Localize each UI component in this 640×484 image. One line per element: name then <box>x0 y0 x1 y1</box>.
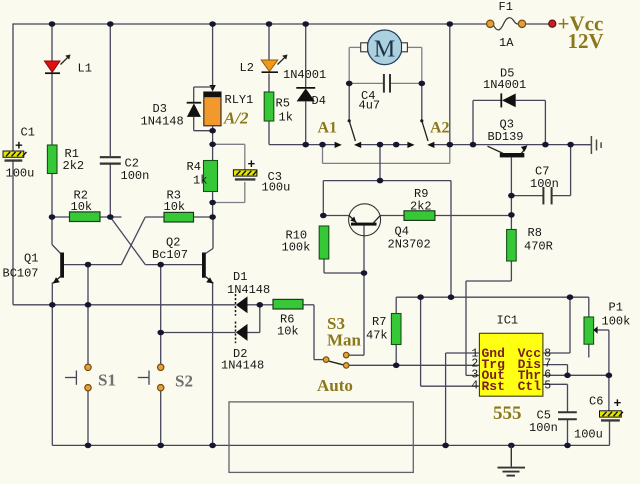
resistor R2 <box>70 212 101 222</box>
wire R10 bottom link <box>324 259 364 273</box>
wire 555 pin4 riser <box>421 297 480 386</box>
wire Q2 collector riser <box>206 217 214 254</box>
label C6 <box>574 395 622 442</box>
label C3 <box>248 157 291 195</box>
wire Q4 collector to R9 <box>381 215 405 217</box>
resistor R9 <box>404 211 435 221</box>
wire R8 bottom to 555 out <box>466 261 511 375</box>
label F1 <box>499 0 515 50</box>
svg-text:10k: 10k <box>164 200 186 214</box>
label D5 <box>483 67 526 93</box>
svg-text:2k2: 2k2 <box>410 200 432 214</box>
label D1 <box>227 270 270 297</box>
IC 555 pin names <box>482 346 542 394</box>
label Auto <box>317 376 353 395</box>
label R3 <box>164 189 186 215</box>
wire R5 bottom corner <box>269 121 335 145</box>
diode D5 <box>501 93 515 107</box>
wire crossover to R3 <box>145 216 164 218</box>
resistor R6 <box>273 299 303 309</box>
wire C4 left lead <box>349 82 384 84</box>
svg-text:L1: L1 <box>78 62 92 76</box>
wire D4 column top <box>305 24 307 88</box>
label A1 <box>318 120 338 137</box>
wire R1 bottom to node <box>51 174 53 218</box>
wire relay coil feed <box>212 24 214 86</box>
resistor R4 <box>204 161 218 192</box>
label C7 <box>530 165 559 192</box>
svg-text:+: + <box>614 396 622 411</box>
junction dots relay column <box>209 128 216 220</box>
svg-text:BC107: BC107 <box>3 267 39 281</box>
contact A2 <box>407 119 434 148</box>
resistor R8 <box>507 230 517 262</box>
wire Q2 base line <box>145 264 202 266</box>
wire A1 lever riser <box>348 83 350 120</box>
transistor Q1 <box>53 253 64 284</box>
svg-text:1k: 1k <box>279 111 293 125</box>
svg-text:Ctl: Ctl <box>518 379 542 394</box>
wire 555 pin8 link <box>543 297 570 353</box>
svg-text:F1: F1 <box>499 0 513 14</box>
wire S1 column from Q1 base <box>87 265 89 365</box>
label S1 <box>98 371 116 390</box>
wire rail to contact common <box>449 24 451 145</box>
label D4 <box>283 68 326 108</box>
IC 555 pin numbers <box>471 348 551 393</box>
junction dots contact line <box>302 142 573 148</box>
wire S2 actuator <box>138 371 149 385</box>
svg-text:1N4001: 1N4001 <box>283 68 326 82</box>
svg-text:D4: D4 <box>312 94 326 108</box>
wire D5 left riser <box>473 100 501 144</box>
wire Q4 feed line y=181 <box>323 180 451 182</box>
wire C7 right lead <box>552 145 571 196</box>
LED L1 <box>44 55 70 74</box>
wire crossover diagonal B <box>121 217 145 265</box>
wire D2 anode to riser <box>247 305 259 333</box>
relay RLY1 <box>204 92 221 126</box>
svg-text:100u: 100u <box>574 428 603 442</box>
svg-text:10k: 10k <box>277 325 299 339</box>
label A2 <box>430 120 450 137</box>
wire R6 left lead <box>260 304 273 306</box>
svg-text:1A: 1A <box>499 36 514 50</box>
svg-text:+: + <box>15 139 23 154</box>
wire C5 bottom lead <box>567 420 569 446</box>
wire D2 line from Q2 base column <box>161 332 236 334</box>
junction dots Q4 area <box>320 178 515 276</box>
note box <box>229 402 413 473</box>
label R6 <box>277 313 299 339</box>
svg-text:4: 4 <box>471 380 478 393</box>
svg-text:C6: C6 <box>589 395 603 409</box>
wire P1 top lead <box>588 297 590 317</box>
wire P1 bottom stub <box>588 344 590 357</box>
svg-text:100n: 100n <box>121 169 150 183</box>
svg-text:47k: 47k <box>366 329 388 343</box>
junction dots ground rail <box>85 443 571 449</box>
wire C3 bottom lead <box>213 182 245 203</box>
wire R6 to S3 pole <box>303 305 323 360</box>
wire S1 to ground rail <box>87 391 89 446</box>
svg-text:D1: D1 <box>233 270 247 284</box>
wire ground stub right <box>571 144 591 146</box>
wire contact A1-A2 middle <box>361 144 408 146</box>
resistor R1 <box>47 145 57 174</box>
relay feed arrowhead <box>209 85 215 92</box>
wire C2 top drop <box>109 24 111 156</box>
label Q4 <box>388 225 431 252</box>
svg-text:2k2: 2k2 <box>63 159 85 173</box>
label C1 <box>6 126 35 181</box>
wire D1 anode to node <box>247 304 259 306</box>
wire D3 top loop <box>194 87 213 103</box>
diode D3 <box>187 103 202 117</box>
wire ground return line y=305 <box>13 304 236 306</box>
wire 555 pin7 link <box>543 365 568 376</box>
svg-text:A/2: A/2 <box>223 109 249 128</box>
wire L1 cathode to R1 <box>51 74 53 146</box>
wire Q2 emitter drop <box>212 283 214 446</box>
wire R7 top lead <box>395 297 397 313</box>
wire trigger line to 555 pin2 <box>349 364 479 366</box>
svg-text:10k: 10k <box>71 200 93 214</box>
wire C4 right lead <box>390 82 422 84</box>
wire C7 left lead <box>511 195 543 197</box>
+Vcc terminal <box>549 20 556 27</box>
label P1 <box>602 301 631 329</box>
transistor Q3 <box>488 145 528 157</box>
svg-text:100u: 100u <box>6 167 35 181</box>
resistor R10 <box>319 226 329 259</box>
fuse F1 <box>487 18 526 30</box>
label Q1 <box>3 252 39 281</box>
svg-text:M: M <box>374 37 395 63</box>
wire bottom ground rail <box>52 444 609 446</box>
label R4 <box>187 160 208 188</box>
label R1 <box>63 147 85 173</box>
wire D4 column bottom <box>305 102 307 145</box>
svg-text:RLY1: RLY1 <box>225 93 254 107</box>
wire C2 bottom drop <box>109 164 111 217</box>
wire R2 left lead <box>52 216 70 218</box>
switch S3 <box>323 352 349 368</box>
wire Vcc node line y=297 <box>396 296 589 298</box>
wire R4 bottom lead <box>212 192 214 218</box>
contact A1 <box>335 119 362 148</box>
label C5 <box>529 409 558 436</box>
svg-text:100k: 100k <box>602 315 631 329</box>
wire C3 tap from relay node <box>213 144 245 169</box>
svg-text:Man: Man <box>327 331 362 350</box>
wire R7 bottom lead <box>395 345 397 366</box>
IC 555 body <box>479 333 543 396</box>
ground symbol right <box>591 136 601 154</box>
svg-text:IC1: IC1 <box>497 314 519 328</box>
wire +Vcc top rail <box>13 23 549 25</box>
capacitor C1 <box>3 151 27 161</box>
svg-text:A2: A2 <box>430 120 450 137</box>
wire A2 lever riser <box>421 83 423 120</box>
wire Q1 emitter drop <box>51 283 53 446</box>
wire S2 column from Q2 base <box>160 265 162 365</box>
wire 555 pin1 to ground <box>446 353 480 445</box>
label C2 <box>121 157 150 184</box>
wire Q4 emitter lead <box>323 215 349 217</box>
label L1 <box>78 62 92 76</box>
svg-text:555: 555 <box>493 403 522 424</box>
LED L2 <box>261 55 287 73</box>
wire Q1 collector riser <box>52 217 61 254</box>
switch S2 <box>158 364 164 391</box>
label +Vcc <box>558 12 604 54</box>
resistor P1 <box>584 317 598 344</box>
svg-text:100n: 100n <box>529 421 558 435</box>
label R5 <box>276 97 293 125</box>
capacitor C3 <box>233 170 257 180</box>
svg-text:100n: 100n <box>530 177 559 191</box>
svg-text:4u7: 4u7 <box>359 99 381 113</box>
wire Q4 emitter branch drop <box>322 181 324 216</box>
svg-text:100k: 100k <box>282 241 311 255</box>
resistor R3 <box>164 212 194 222</box>
transistor Q2 <box>202 253 213 284</box>
wire L2 anode drop <box>268 24 270 61</box>
wire R2 right lead <box>100 216 122 218</box>
svg-text:Rst: Rst <box>482 379 505 394</box>
junction dots flipflop <box>49 214 263 335</box>
capacitor C4 <box>384 74 390 93</box>
label R7 <box>366 315 388 343</box>
wire 555 pin6 line <box>543 374 609 376</box>
label Q3 <box>488 118 524 145</box>
junction dots top rail <box>49 21 453 27</box>
label L2 <box>240 61 254 75</box>
label D3 <box>141 102 184 129</box>
wire R9 node riser <box>450 181 452 298</box>
svg-text:+: + <box>248 157 256 172</box>
wire Q1 base line <box>64 264 122 266</box>
wire D5 right riser <box>516 100 546 144</box>
svg-text:1N4148: 1N4148 <box>227 283 270 297</box>
svg-text:5: 5 <box>544 380 551 393</box>
wire C6 bottom lead <box>609 421 611 446</box>
label C4 <box>359 89 381 113</box>
svg-text:BD139: BD139 <box>488 130 524 144</box>
transistor Q4 <box>349 204 381 236</box>
wire Q3 base column <box>510 158 512 230</box>
ground symbol bottom <box>498 445 526 475</box>
junction dots 555 area <box>393 363 612 379</box>
wire S3 Man riser <box>349 273 364 355</box>
capacitor C5 <box>558 412 577 419</box>
svg-text:L2: L2 <box>240 61 254 75</box>
label R10 <box>282 229 311 255</box>
resistor R7 <box>391 314 401 345</box>
svg-text:1N4148: 1N4148 <box>141 115 184 129</box>
svg-text:100u: 100u <box>262 181 291 195</box>
junction dots Vcc node <box>417 294 573 300</box>
svg-text:1k: 1k <box>193 174 207 188</box>
svg-text:R5: R5 <box>276 97 290 111</box>
svg-text:2N3702: 2N3702 <box>388 238 431 252</box>
label R2 <box>71 189 93 215</box>
wire A2 riser to Q4 feed <box>379 145 381 181</box>
wire motor left lead <box>349 47 363 83</box>
svg-text:R7: R7 <box>372 315 386 329</box>
svg-text:P1: P1 <box>609 301 623 315</box>
wire R3 right lead <box>194 216 214 218</box>
diode D4 <box>296 88 315 102</box>
svg-text:S2: S2 <box>175 372 193 391</box>
wire S2 to ground rail <box>160 391 162 446</box>
switch S1 <box>85 364 91 391</box>
motor M1 <box>361 30 408 65</box>
svg-text:12V: 12V <box>568 29 604 53</box>
svg-text:Q1: Q1 <box>24 252 38 266</box>
capacitor C2 <box>100 157 121 163</box>
diode D2 <box>236 322 248 344</box>
wire P1 wiper to C6 column <box>597 330 609 411</box>
label IC1 <box>497 314 519 328</box>
diode D1 <box>236 294 248 316</box>
wire D3 bottom loop <box>194 117 213 131</box>
wire L1 anode drop <box>51 24 53 61</box>
wire contact A2 to Q3 section <box>434 144 591 146</box>
label D2 <box>221 347 264 373</box>
svg-text:S1: S1 <box>98 371 116 390</box>
svg-text:C1: C1 <box>21 126 35 140</box>
wire relay bottom to R4 <box>212 126 214 161</box>
wire Q4 base drop <box>363 226 365 273</box>
wire L2 cathode to R5 <box>268 74 270 93</box>
label Q2 <box>152 236 188 263</box>
resistor R5 <box>264 92 274 121</box>
capacitor C6 <box>600 411 624 421</box>
label S2 <box>175 372 193 391</box>
label R9 <box>410 187 432 214</box>
wire contact bypass U <box>323 145 450 164</box>
wire S1 actuator <box>65 371 76 385</box>
svg-text:R4: R4 <box>187 160 201 174</box>
svg-text:1N4148: 1N4148 <box>221 359 264 373</box>
junction dots motor <box>346 81 425 87</box>
svg-text:Bc107: Bc107 <box>152 248 188 262</box>
wire R9 right to Q3 base node <box>435 215 512 217</box>
svg-text:Q4: Q4 <box>395 225 409 239</box>
svg-text:A1: A1 <box>318 120 338 137</box>
label R8 <box>524 226 553 254</box>
svg-text:R8: R8 <box>528 226 542 240</box>
svg-text:1N4001: 1N4001 <box>483 78 526 92</box>
label S3 <box>327 314 362 350</box>
svg-text:Auto: Auto <box>317 376 353 395</box>
svg-text:470R: 470R <box>524 240 553 254</box>
label 555 <box>493 403 522 424</box>
wire 555 pin5 to C5 <box>543 384 568 411</box>
wire motor right lead <box>407 47 422 83</box>
label RLY1 <box>223 93 253 128</box>
wire left rail (x=13) through C1 <box>12 23 14 304</box>
wire crossover diagonal A <box>110 217 145 265</box>
capacitor C7 <box>543 187 551 204</box>
